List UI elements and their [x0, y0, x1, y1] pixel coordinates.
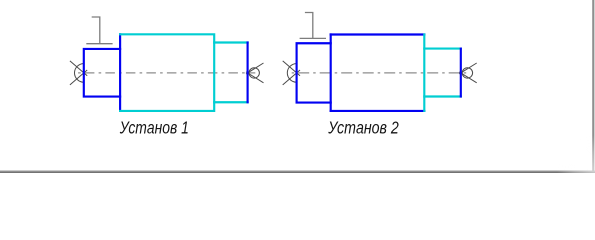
svg-text:Усmанов 1: Усmанов 1: [119, 118, 189, 138]
svg-text:Усmанов 2: Усmанов 2: [327, 118, 398, 138]
